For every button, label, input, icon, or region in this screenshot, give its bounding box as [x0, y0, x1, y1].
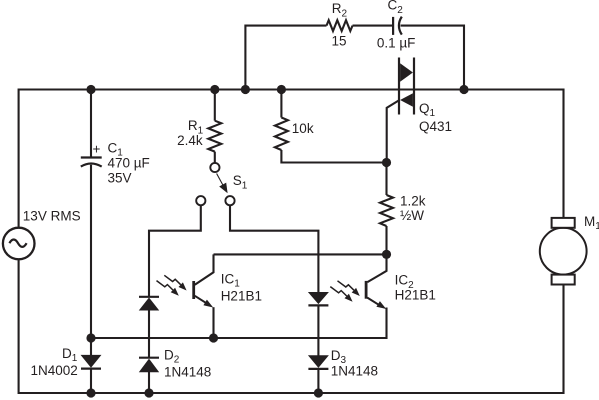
svg-text:R2: R2 [332, 1, 348, 19]
IC2 light arrow lower [330, 287, 352, 302]
node gate [382, 158, 391, 167]
svg-text:15: 15 [331, 34, 346, 49]
node C1 top [86, 85, 95, 94]
triac Q1 left bar [398, 58, 400, 115]
diode D2 [139, 357, 159, 359]
wire 10k bottom lead to gate node [281, 150, 386, 163]
svg-text:1.2k: 1.2k [400, 193, 426, 208]
IC1 emitter with arrow [195, 296, 208, 304]
wire R1 top lead [214, 90, 216, 121]
wire IC1 collector riser [195, 254, 214, 284]
svg-text:13V RMS: 13V RMS [23, 209, 81, 224]
svg-text:Q431: Q431 [419, 119, 452, 134]
svg-text:+: + [93, 142, 101, 157]
node D3 bottom [314, 388, 323, 397]
diode D3 [309, 356, 327, 367]
resistor R2 zigzag [327, 20, 353, 31]
IC1 light arrow lower [157, 281, 179, 296]
gate wire of Q1 [387, 100, 400, 163]
svg-text:1N4148: 1N4148 [331, 364, 378, 379]
node D1 bottom [86, 388, 95, 397]
wire mid rail (emitter return) with corner up to IC2 emitter [91, 308, 387, 339]
IC2 phototransistor base bar [365, 281, 368, 299]
svg-text:1N4148: 1N4148 [164, 365, 211, 380]
node 10k top [277, 85, 286, 94]
switch S1 pole contact [210, 163, 219, 172]
svg-text:S1: S1 [233, 173, 248, 191]
wire bottom loop: source bottom to bottom rail to motor bottom [19, 260, 564, 393]
wire D3 bottom lead [317, 369, 319, 393]
motor M1 top brush [552, 218, 575, 228]
svg-text:½W: ½W [400, 208, 424, 223]
motor M1 circle [540, 228, 587, 275]
node R1 top [210, 85, 219, 94]
resistor 10k zigzag [275, 118, 288, 151]
svg-text:C2: C2 [388, 0, 404, 16]
wire 1.2k bottom lead [385, 226, 387, 254]
svg-text:1N4002: 1N4002 [31, 363, 78, 378]
wire IC1 emitter down to mid rail [212, 307, 214, 338]
diode D1 [82, 356, 100, 367]
IC1 light arrow upper [164, 275, 186, 290]
wire D2 bottom lead [148, 372, 150, 393]
node C1 bottom [86, 333, 95, 342]
svg-text:0.1 µF: 0.1 µF [377, 35, 416, 50]
wire C1 top lead [90, 90, 92, 158]
wire D1 bottom lead [90, 369, 92, 393]
switch S1 right throw contact [225, 196, 234, 205]
AC source sine symbol [9, 240, 26, 247]
svg-text:IC1: IC1 [221, 271, 241, 289]
wire R2 to C2 [353, 25, 393, 27]
node D2 bottom [144, 388, 153, 397]
svg-text:10k: 10k [292, 121, 314, 136]
wire C2 right lead and riser down to rail [401, 26, 465, 90]
IC1 phototransistor base bar [192, 281, 195, 299]
node snubber left [241, 85, 250, 94]
resistor 1.2k zigzag [380, 195, 393, 226]
resistor R1 zigzag [208, 121, 221, 152]
svg-text:2.4k: 2.4k [177, 133, 203, 148]
wire IC2 collector riser [367, 254, 386, 282]
switch S1 arrow [217, 174, 224, 186]
junction node dots [86, 85, 468, 398]
svg-text:M1: M1 [584, 214, 599, 232]
wire R1 bottom lead to switch pole [214, 152, 216, 164]
wire D1 top lead [90, 338, 92, 356]
switch S1 left throw contact [196, 196, 205, 205]
wire 10k top lead [280, 90, 282, 118]
wire C1 bottom lead down to mid rail [90, 165, 92, 338]
AC source 13V RMS circle [3, 228, 35, 260]
wire IC1 LED to D2 [148, 310, 150, 358]
wire IC2 LED to D3 [317, 305, 319, 355]
svg-text:H21B1: H21B1 [395, 288, 436, 303]
IC2 emitter with arrow [367, 298, 381, 307]
node snubber right [459, 85, 468, 94]
motor M1 bottom brush [552, 275, 575, 285]
wire snubber left riser [245, 26, 326, 90]
node 1.2k bottom [382, 250, 391, 259]
wire IC1 collector rail to 1.2k node [214, 253, 387, 255]
svg-text:H21B1: H21B1 [221, 288, 262, 303]
wire S1 right contact branch to IC2 LED [230, 206, 318, 293]
wire top loop: source top to top rail to motor top [19, 90, 564, 227]
svg-text:Q1: Q1 [419, 101, 436, 119]
wire S1 left contact branch to IC1 LED [149, 206, 201, 297]
capacitor C2 plates [393, 17, 402, 35]
svg-text:D2: D2 [164, 348, 180, 366]
node IC1 emitter [209, 333, 218, 342]
IC2 LED (points down) [309, 293, 327, 304]
svg-text:35V: 35V [108, 171, 132, 186]
wire 1.2k top lead from gate node [385, 163, 387, 196]
triac Q1 lower triangle [400, 93, 413, 106]
triac Q1 upper triangle [400, 63, 413, 81]
triac Q1 right bar [413, 58, 415, 115]
IC1 LED (points up) [139, 296, 159, 298]
svg-text:D1: D1 [62, 346, 78, 364]
capacitor C1 plates [81, 158, 102, 167]
svg-text:470 µF: 470 µF [108, 156, 150, 171]
IC2 light arrow upper [338, 281, 360, 296]
